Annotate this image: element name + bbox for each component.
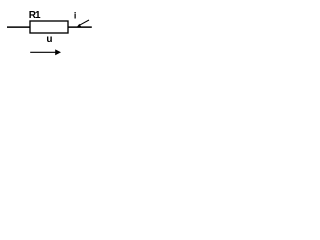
- voltage arrow u: [30, 49, 61, 55]
- label R1: [29, 10, 41, 21]
- current arrow i: [77, 20, 89, 27]
- resistor R1: [30, 21, 68, 33]
- wire right lead: [68, 26, 92, 28]
- svg-text:i: i: [74, 11, 77, 21]
- wire left lead: [7, 26, 30, 28]
- svg-text:u: u: [46, 34, 52, 45]
- svg-text:1: 1: [35, 10, 41, 21]
